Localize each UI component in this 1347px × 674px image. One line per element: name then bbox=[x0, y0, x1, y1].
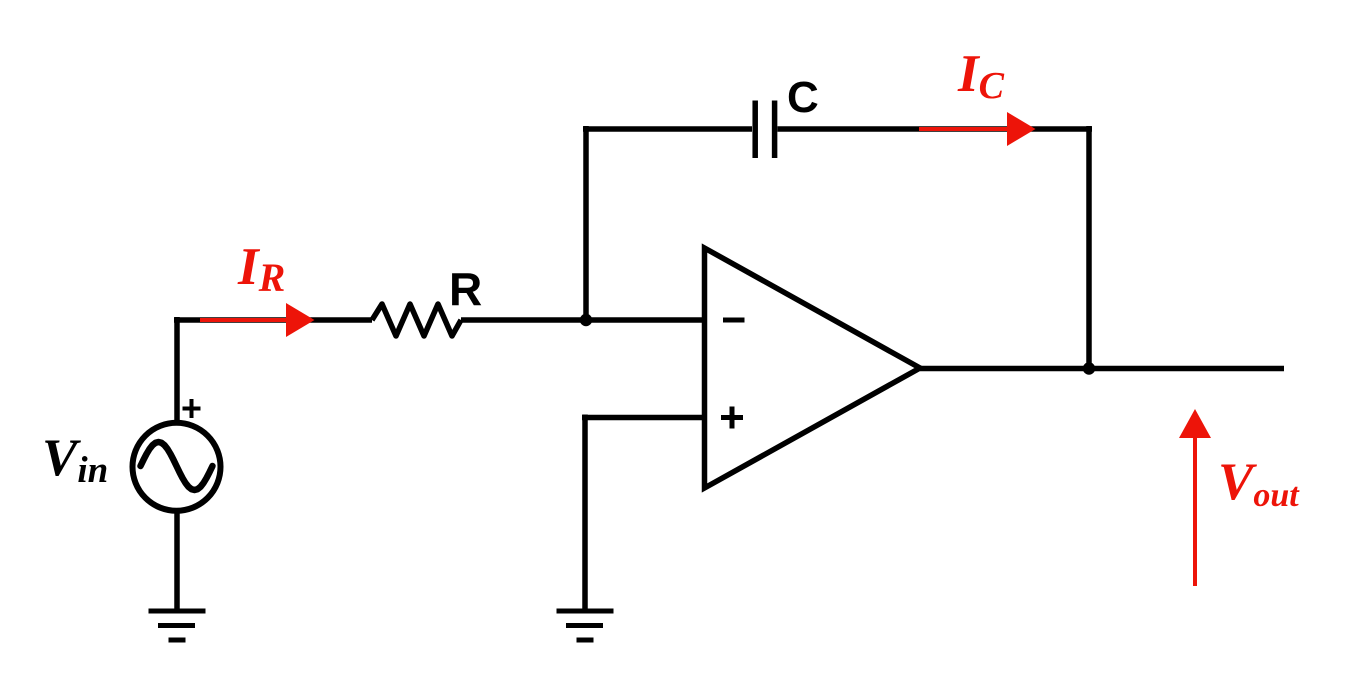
op-amp minus input symbol bbox=[723, 318, 745, 323]
ground at op-amp bbox=[557, 611, 614, 640]
op-amp U1 triangle bbox=[705, 248, 921, 488]
svg-text:IC: IC bbox=[957, 45, 1005, 107]
wire feedback top left (node to capacitor) bbox=[583, 126, 752, 132]
wire plus input vertical down to ground bbox=[582, 415, 588, 612]
resistor R bbox=[372, 304, 461, 336]
op-amp plus input symbol bbox=[721, 407, 743, 429]
capacitor C plates bbox=[755, 101, 774, 159]
ground at source bbox=[149, 611, 206, 640]
wire feedback right vertical bbox=[1086, 126, 1092, 369]
voltage source V1 circle bbox=[133, 423, 221, 511]
svg-text:Vout: Vout bbox=[1218, 453, 1300, 514]
wire output bbox=[920, 366, 1284, 372]
wire feedback left vertical bbox=[583, 126, 589, 323]
wire source bottom to ground bbox=[174, 510, 180, 611]
voltage source sine wave bbox=[141, 442, 213, 490]
current arrow I_R bbox=[200, 303, 315, 337]
wire main horizontal right segment (resistor to op-amp minus) bbox=[461, 317, 704, 323]
wire plus input horizontal bbox=[582, 415, 704, 421]
svg-text:Vin: Vin bbox=[42, 429, 108, 491]
wire feedback top right (capacitor to right vertical) bbox=[778, 126, 1093, 132]
svg-text:IR: IR bbox=[237, 238, 285, 300]
current arrow I_C bbox=[919, 112, 1036, 146]
svg-text:C: C bbox=[787, 73, 819, 122]
node B junction dot at output bbox=[1083, 362, 1095, 374]
voltage arrow V_out bbox=[1179, 409, 1211, 586]
voltage source plus polarity mark bbox=[183, 399, 201, 418]
svg-text:R: R bbox=[449, 263, 482, 315]
wire main horizontal left segment (source corner to resistor) bbox=[174, 317, 372, 323]
wire input vertical from source to main wire bbox=[174, 317, 180, 420]
node A junction dot bbox=[580, 314, 592, 326]
